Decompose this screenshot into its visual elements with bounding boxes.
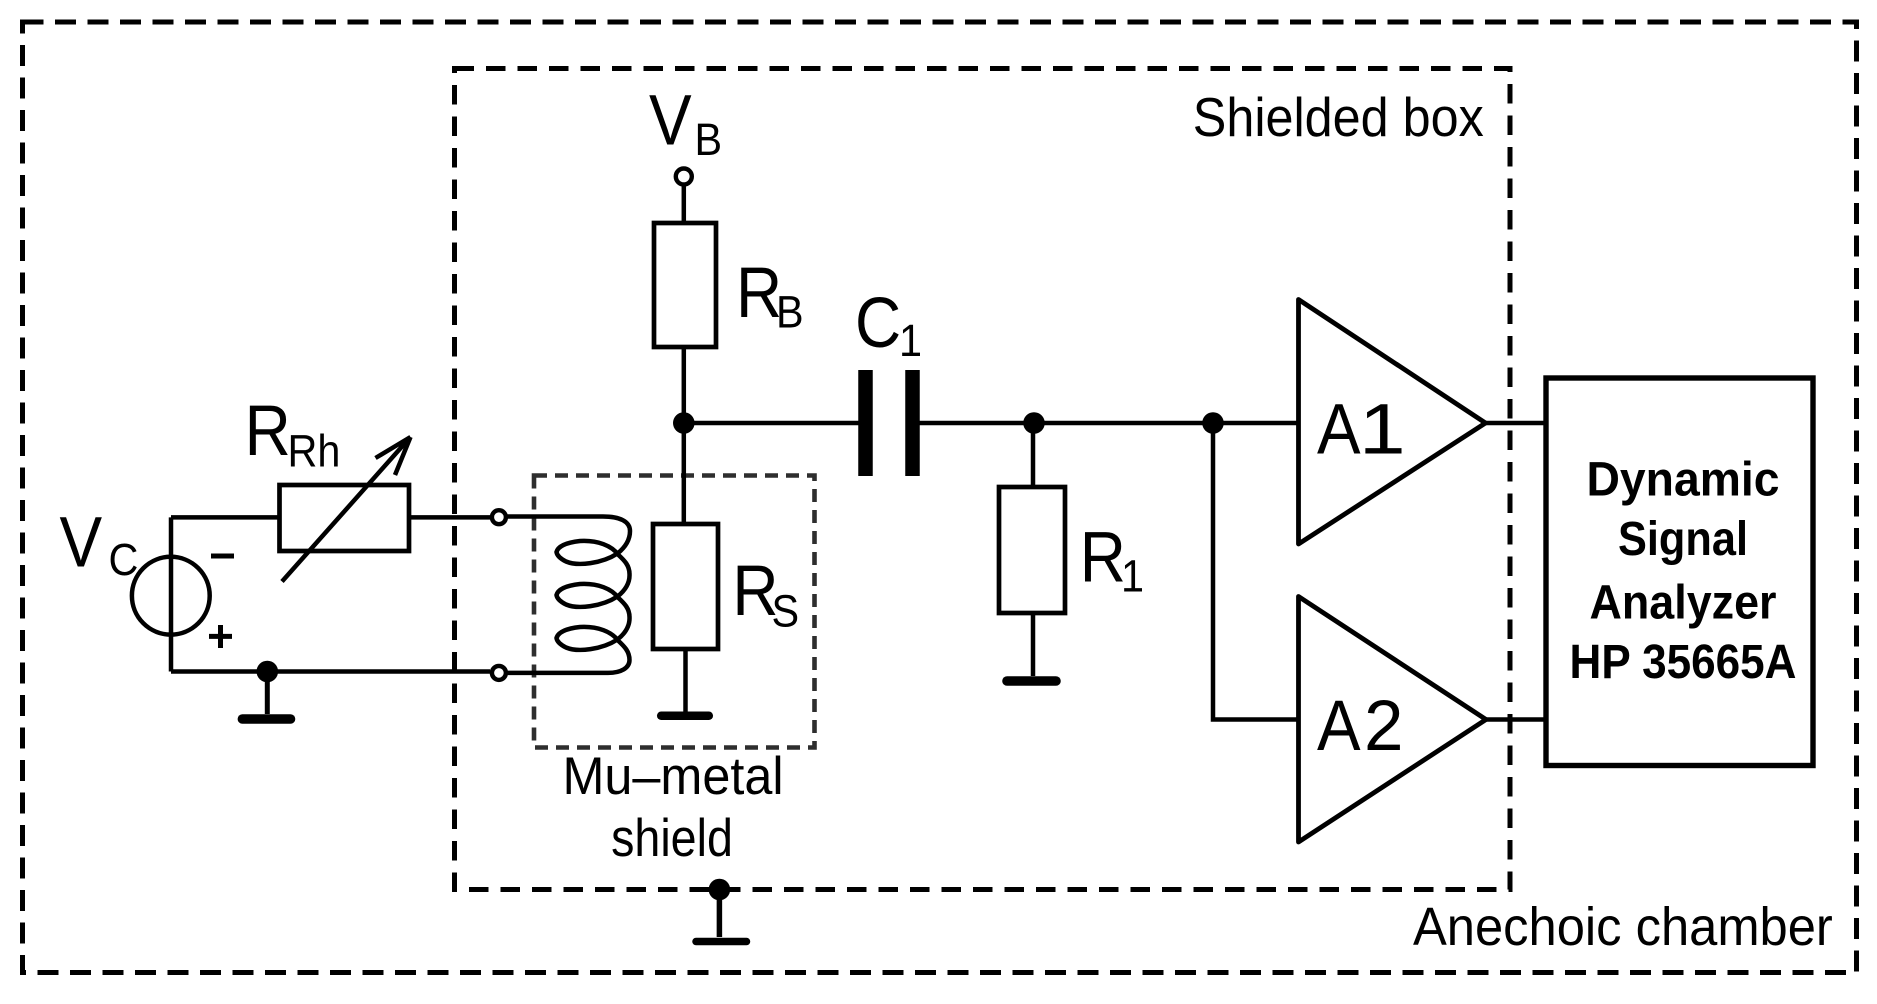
svg-text:Anechoic chamber: Anechoic chamber bbox=[1413, 898, 1833, 958]
wire: VC bottom to bottom terminal bbox=[171, 669, 490, 674]
resistor RRh (rheostat) body bbox=[280, 485, 410, 551]
ground at VC bbox=[265, 672, 270, 715]
wire: branch down to A2 bbox=[1213, 423, 1299, 720]
terminal (open circle) top left of coil bbox=[492, 510, 506, 524]
wire: VC top to rheostat bbox=[171, 515, 280, 520]
wire: VB to RB bbox=[682, 185, 687, 223]
capacitor C1 label bbox=[855, 284, 901, 363]
resistor RS body bbox=[653, 524, 718, 649]
svg-text:Dynamic: Dynamic bbox=[1587, 454, 1780, 507]
Dynamic Signal Analyzer box bbox=[1546, 378, 1813, 766]
svg-text:A: A bbox=[1317, 687, 1361, 766]
terminal VB (open circle) bbox=[676, 169, 692, 185]
rheostat arrow bbox=[282, 437, 411, 582]
resistor RRh label bbox=[245, 392, 291, 471]
junction node at RB/RS bbox=[673, 412, 695, 434]
Mu-metal shield label bbox=[562, 746, 783, 805]
wire: capacitor to A1 with junctions bbox=[920, 421, 1299, 426]
resistor R1 body bbox=[999, 487, 1065, 613]
Mu-metal shield dashed box bbox=[534, 476, 815, 748]
op-amp A2 label bbox=[1317, 687, 1361, 766]
resistor R1 label bbox=[1080, 518, 1126, 597]
wire: RB to junction bbox=[682, 347, 687, 423]
Anechoic chamber label bbox=[1413, 898, 1833, 958]
junction node at A2 branch bbox=[1202, 412, 1224, 434]
node VB label bbox=[649, 81, 692, 160]
voltage source VC label bbox=[60, 503, 103, 582]
junction node on bottom wire bbox=[257, 661, 279, 683]
svg-text:2: 2 bbox=[1364, 687, 1404, 766]
plus sign bbox=[209, 625, 232, 648]
inductor coil bbox=[508, 517, 631, 673]
resistor RS label bbox=[732, 552, 778, 631]
Shielded box label bbox=[1193, 87, 1484, 149]
svg-text:B: B bbox=[695, 115, 723, 165]
svg-text:Shielded box: Shielded box bbox=[1193, 87, 1484, 149]
svg-text:HP 35665A: HP 35665A bbox=[1570, 636, 1797, 689]
wire: junction down to R1 bbox=[1031, 423, 1036, 487]
Shielded box dashed box bbox=[455, 69, 1511, 890]
svg-text:A: A bbox=[1317, 390, 1361, 469]
svg-text:Rh: Rh bbox=[288, 427, 341, 477]
wire: rheostat to left terminal bbox=[409, 515, 490, 520]
wire: junction to capacitor bbox=[684, 421, 859, 426]
wire: RS to ground bbox=[683, 649, 688, 712]
svg-text:B: B bbox=[776, 288, 804, 338]
wire: VC vertical through circle bbox=[169, 517, 174, 671]
svg-text:shield: shield bbox=[611, 808, 733, 867]
svg-text:Analyzer: Analyzer bbox=[1590, 577, 1777, 630]
ground stem below shielded box bbox=[717, 890, 723, 938]
wire: A1 to analyzer bbox=[1486, 421, 1547, 426]
svg-text:C: C bbox=[855, 284, 901, 363]
svg-text:Mu–metal: Mu–metal bbox=[562, 746, 783, 805]
wire: R1 to ground bbox=[1031, 613, 1036, 676]
junction node at R1 bbox=[1023, 412, 1045, 434]
svg-text:V: V bbox=[649, 81, 692, 160]
resistor RB body bbox=[654, 223, 716, 347]
wire: junction down to RS bbox=[682, 423, 687, 524]
svg-text:V: V bbox=[60, 503, 103, 582]
svg-text:S: S bbox=[772, 587, 800, 637]
svg-text:1: 1 bbox=[1121, 552, 1144, 602]
ground at RS bbox=[661, 711, 709, 720]
ground node on shielded box bottom bbox=[709, 879, 731, 901]
minus sign bbox=[211, 554, 234, 559]
op-amp A1 bbox=[1299, 300, 1486, 545]
svg-text:1: 1 bbox=[1359, 390, 1406, 469]
ground at R1 bbox=[1007, 676, 1056, 686]
capacitor C1 bbox=[858, 370, 873, 476]
op-amp A2 bbox=[1299, 597, 1487, 843]
svg-text:R: R bbox=[1080, 518, 1126, 597]
svg-text:R: R bbox=[245, 392, 291, 471]
resistor RB label bbox=[736, 254, 782, 333]
svg-text:Signal: Signal bbox=[1618, 513, 1748, 566]
terminal (open circle) bottom left of coil bbox=[492, 666, 506, 680]
op-amp A1 label bbox=[1317, 390, 1361, 469]
voltage source VC circle bbox=[132, 557, 210, 635]
ground bar below shielded box bbox=[696, 938, 747, 946]
svg-text:1: 1 bbox=[899, 316, 922, 366]
wire: A2 to analyzer bbox=[1486, 717, 1546, 722]
